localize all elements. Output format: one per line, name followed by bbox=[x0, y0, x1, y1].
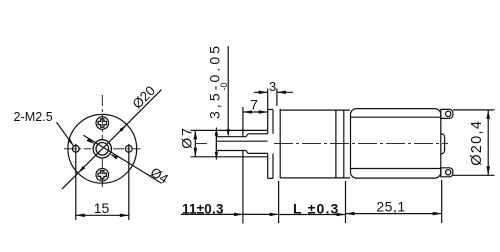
terminal hole bottom bbox=[446, 170, 451, 175]
dim L arrow right bbox=[337, 213, 346, 217]
motor can rounded body bbox=[351, 109, 441, 179]
dim 3.5 line lower bbox=[215, 128, 217, 160]
horizontal centerline main bbox=[274, 143, 448, 145]
svg-text:3: 3 bbox=[269, 79, 276, 94]
svg-text:11±0.3: 11±0.3 bbox=[182, 202, 224, 217]
dim 3.5 arrow down bbox=[215, 128, 219, 136]
dim Ø20 leader line bbox=[62, 90, 162, 190]
terminal tab top bbox=[441, 109, 453, 118]
motor can seam line bottom bbox=[351, 168, 441, 170]
svg-text:15: 15 bbox=[94, 200, 110, 216]
screw bottom circle bbox=[96, 169, 109, 182]
gearbox body front line bbox=[279, 109, 281, 178]
svg-text:Ø20: Ø20 bbox=[129, 83, 158, 112]
dim L line bbox=[279, 214, 346, 216]
dim 15 arrow left bbox=[76, 214, 85, 218]
dim Ø4 arrow SE bbox=[110, 154, 118, 160]
shaft hole inner circle bbox=[96, 143, 109, 156]
dim 7 arrow right bbox=[259, 110, 268, 114]
dim 7 line bbox=[243, 111, 268, 113]
dim 25.1 arrow left bbox=[346, 212, 355, 216]
dim Ø20.4 arrow down bbox=[486, 166, 490, 175]
face plate second line bbox=[272, 110, 274, 179]
svg-text:Ø4: Ø4 bbox=[148, 165, 172, 187]
face plate top/bottom edges bbox=[268, 110, 273, 179]
dim 11 ext right bbox=[278, 181, 280, 223]
dim 3 line right tail and ext right bbox=[277, 89, 293, 107]
dim Ø20 arrow SW bbox=[78, 166, 85, 173]
dim 11 arrow at 243 bbox=[234, 213, 243, 217]
dim 15 line bbox=[76, 214, 129, 216]
dim Ø4 arrow NW bbox=[87, 138, 95, 144]
dim 15 ext left bbox=[75, 144, 77, 220]
svg-text:7: 7 bbox=[250, 97, 258, 113]
dim Ø7 line bbox=[194, 130, 196, 156]
svg-text:3,5-0.05: 3,5-0.05 bbox=[207, 43, 223, 119]
dim 3 arrow left bbox=[259, 91, 268, 95]
boss/Ø7 ext bottom line bbox=[191, 156, 268, 158]
motor can seam line top bbox=[351, 116, 441, 118]
shaft bottom line bbox=[216, 151, 267, 154]
dim Ø7 arrow up bbox=[194, 130, 198, 139]
svg-text:L ±0.3: L ±0.3 bbox=[293, 200, 340, 216]
horizontal centerline bbox=[64, 148, 141, 150]
gearbox back face line bbox=[343, 110, 345, 178]
gearbox internal vertical line bbox=[335, 110, 337, 178]
mounting hole right M2.5 bbox=[125, 145, 132, 152]
dim 7 arrow left bbox=[243, 110, 252, 114]
dim 3 arrow right bbox=[277, 91, 286, 95]
dim 3 line left tail bbox=[254, 91, 268, 93]
dim Ø20 arrow NE bbox=[119, 124, 126, 131]
dim 3.5 upper arrow bbox=[226, 129, 230, 137]
dim 3.5 arrow up bbox=[215, 152, 219, 160]
dim Ø20.4 ext top bbox=[453, 109, 495, 111]
boss/Ø7 ext top line bbox=[191, 129, 268, 131]
svg-text:25,1: 25,1 bbox=[376, 199, 405, 215]
dim L ext right bbox=[345, 181, 347, 223]
terminal tab bottom bbox=[441, 168, 453, 177]
dim 25.1 ext right bbox=[441, 180, 443, 223]
dim 15 arrow right bbox=[120, 214, 129, 218]
shaft flat line bbox=[216, 140, 267, 142]
vertical centerline bbox=[101, 95, 103, 187]
dim 25.1 arrow right bbox=[433, 212, 442, 216]
dim 3 ext left bbox=[267, 89, 269, 110]
dim 11 arrow at 278 bbox=[270, 213, 279, 217]
dim 11 ext left bbox=[242, 151, 244, 224]
mounting hole left M2.5 bbox=[72, 145, 79, 152]
leader 2-M2.5 bbox=[57, 122, 74, 146]
svg-text:-0: -0 bbox=[219, 82, 229, 90]
screw top cross bbox=[98, 119, 106, 127]
screw top circle bbox=[96, 117, 109, 130]
horizontal centerline left stub bbox=[196, 143, 207, 145]
svg-text:Ø20,4: Ø20,4 bbox=[469, 120, 485, 166]
dim Ø20.4 ext bottom bbox=[453, 174, 495, 176]
leader arrow bbox=[68, 138, 74, 145]
dim Ø20.4 line bbox=[487, 110, 489, 175]
dim Ø4 leader line bbox=[84, 135, 162, 183]
dim Ø7 arrow down bbox=[194, 148, 198, 157]
svg-text:2-M2.5: 2-M2.5 bbox=[14, 110, 53, 124]
dim 15 ext right bbox=[128, 144, 130, 220]
screw bottom cross bbox=[98, 171, 106, 179]
hub outer circle bbox=[93, 140, 111, 158]
dim 7 ext left bbox=[242, 107, 244, 137]
svg-text:Ø7: Ø7 bbox=[178, 126, 194, 149]
terminal hole top bbox=[446, 111, 451, 116]
face plate front line bbox=[267, 110, 269, 179]
gearbox body outline bbox=[280, 110, 350, 178]
dim 25.1 line bbox=[346, 213, 442, 215]
dim Ø20.4 arrow up bbox=[486, 110, 490, 119]
dim 3.5 line upper bbox=[227, 46, 229, 135]
dim 11 line bbox=[181, 213, 279, 215]
rear bearing bump bbox=[441, 134, 445, 154]
shaft end face bbox=[215, 137, 217, 151]
gearbox face outer circle Ø20 bbox=[68, 114, 137, 183]
shaft top line bbox=[216, 134, 267, 137]
